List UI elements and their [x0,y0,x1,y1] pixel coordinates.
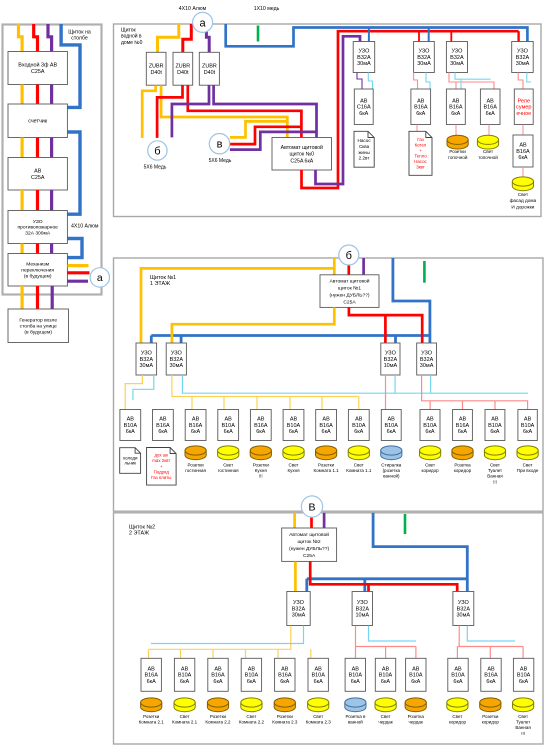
breaker "АВ В10А 6кА" A2-2 [174,658,194,691]
wire phase B from node в (red) [230,127,302,144]
svg-text:В16А: В16А [144,673,158,679]
breaker "АВ В16А 6кА" A1-2 [153,410,174,441]
label "Розетки гостинная" [185,463,206,474]
label "Розетка коридор" [454,463,472,474]
svg-text:Комната 2.3: Комната 2.3 [306,720,332,725]
svg-text:АВ: АВ [388,417,396,423]
breaker "АВ В16А 6кА" A1-11 [453,410,473,441]
svg-text:Комната 2.2: Комната 2.2 [205,720,231,725]
label "Свет Комната 1.1" [346,463,372,474]
svg-text:ZUBR: ZUBR [149,63,164,69]
breaker "АВ В10А 6кА" A1-12 [485,410,505,441]
wire RCD1 neutral drop (blue) [368,28,370,42]
svg-text:В10А: В10А [311,673,325,679]
load "Свет гостинная" [218,446,239,460]
load "Розетки Комната 2.1" [141,698,162,712]
svg-text:В10А: В10А [245,673,259,679]
svg-text:6кА: 6кА [411,679,420,685]
svg-text:6кА: 6кА [486,111,495,117]
svg-text:В10А: В10А [409,673,423,679]
svg-text:ванной: ванной [348,719,363,725]
wire neutral pole drop (blue) [61,24,80,107]
svg-text:УЗО: УЗО [419,49,431,55]
svg-text:(в будущем): (в будущем) [24,273,52,279]
label "Свет Комната 2.2" [239,714,265,725]
svg-text:Генератор возле: Генератор возле [19,318,57,324]
svg-text:УЗО: УЗО [421,351,433,357]
switch "Механизм переключения (в будущем)" [8,254,67,287]
wire U1-2 phase bus (pale yellow) [172,375,359,410]
svg-text:а: а [200,17,207,29]
svg-text:Тепло: Тепло [414,154,427,159]
svg-text:Щиток №2: Щиток №2 [129,525,155,531]
svg-text:ZUBR: ZUBR [202,63,217,69]
label "Свет гостинная" [218,463,239,474]
wire phase C AB to RCD (purple) [50,190,53,211]
node В (panel 2) [301,496,322,517]
load "Розетки Комната 2.3" [274,698,295,712]
label "Розетки Комната 2.3" [272,714,298,725]
svg-text:Свет: Свет [518,192,529,197]
svg-text:+: + [419,148,422,153]
breaker "АВ В10А 6кА" A2-12 [513,658,533,691]
generator "Генератор возле столба на улице (в будущем)" [8,309,69,343]
breaker "АВ С25А" [8,158,67,191]
wire phase C pole drop (purple) [48,24,52,52]
svg-text:В10А: В10А [451,673,465,679]
svg-text:столбе: столбе [71,35,88,41]
svg-text:4Х10 Алюм: 4Х10 Алюм [179,6,207,12]
svg-text:Комната 2.1: Комната 2.1 [139,720,165,725]
svg-text:Свет: Свет [490,463,500,468]
label "Свет коридор" [449,714,467,725]
wire phase A from node в (yellow) [230,121,287,137]
wire phase C branch to node б (purple) [172,85,209,137]
load note "Газ Котел + Тепло Насос" [409,131,432,175]
wire ground stub (green) [257,26,260,42]
svg-text:6кА: 6кА [490,429,499,435]
breaker "АВ В10А 6кА" A1-9 [381,410,401,441]
breaker "АВ В16А 6кА" A1-5 [250,410,271,441]
svg-text:счетчик: счетчик [28,119,48,125]
svg-text:АВ: АВ [487,667,495,673]
wire phase B AB to RCD (red) [36,190,39,211]
node а (left panel) [90,268,109,287]
svg-text:6кА: 6кА [351,679,360,685]
svg-text:коридор: коридор [454,468,472,473]
svg-text:В16А: В16А [449,105,463,111]
wire phase bus up to RCD row (red) [302,31,519,188]
RCD "УЗО В32А 30мА" U2-1 [287,592,310,626]
wire phase C stub to node а (purple) [67,280,88,283]
breaker "АВ В16А 6кА" A2-3 [208,658,228,691]
wire phase B branch to node б (red) [157,85,182,138]
load note "дух шк max 2квт + Подряд Газ плиты" [147,448,177,486]
wire phase A pole drop (yellow) [19,24,23,52]
label "Свет Туалет Ванная !!!" [487,463,503,485]
wire phase A out to RCD1 (yellow) [294,561,297,591]
load "Свет Комната 2.1" [174,698,195,712]
label "Свет коридор" [422,463,440,474]
svg-text:В32А: В32А [140,357,154,363]
svg-text:В10А: В10А [379,673,393,679]
label "Щиток №2 2 ЭТАЖ" [129,525,155,537]
svg-text:В16А: В16А [156,423,170,429]
svg-text:6кА: 6кА [289,429,298,435]
wire phase B bus to main breaker (red) [188,85,302,137]
svg-text:АВ: АВ [34,168,42,174]
breaker "АВ В16А 6кА" A2-5 [275,658,295,691]
svg-text:АВ: АВ [520,667,528,673]
panel enclosure "Щиток №2 2 ЭТАЖ" [114,513,544,744]
svg-text:6кА: 6кА [256,429,265,435]
wire neutral RCD to switch (blue) [67,239,82,258]
svg-text:В16А: В16А [484,673,498,679]
wire phase A to generator (yellow) [21,286,24,309]
svg-text:6кА: 6кА [453,679,462,685]
label "Розетка чердак" [408,714,425,725]
wire phase B stub to node а (red) [67,271,89,274]
svg-text:коридор: коридор [449,720,467,725]
main breaker "Автомат щитовой щиток №1" [320,275,379,308]
svg-text:дух шк: дух шк [154,453,168,458]
svg-text:2.2вт: 2.2вт [359,156,371,161]
svg-text:6кА: 6кА [280,679,289,685]
svg-text:щиток №1: щиток №1 [338,285,361,291]
breaker "АВ В16А 6кА" A0-4 [480,89,500,125]
svg-text:6кА: 6кА [518,155,527,161]
svg-text:6кА: 6кА [147,679,156,685]
svg-text:6кА: 6кА [425,429,434,435]
svg-text:6кА: 6кА [381,679,390,685]
svg-text:топочной: топочной [448,154,468,160]
svg-text:Стиралка: Стиралка [381,463,402,468]
wire AB facade to light (pink) [522,167,524,177]
svg-text:В16А: В16А [278,673,292,679]
svg-text:Кухня: Кухня [287,468,300,473]
svg-text:УЗО: УЗО [33,219,43,225]
load "Розетка в ванной" [345,698,366,712]
wire phase B drop to ZUBR2 (red) [183,24,192,52]
label "Свет Комната 2.1" [172,714,198,725]
wire relay to AB facade (pink) [522,125,524,135]
wire U1-3 to washer breaker (pink) [385,375,387,410]
svg-text:30мА: 30мА [170,363,184,369]
wire phase C bus to main breaker (purple) [214,85,317,137]
svg-text:ZUBR: ZUBR [175,63,190,69]
svg-text:АВ: АВ [454,667,462,673]
svg-text:В10А: В10А [221,423,235,429]
wire phase C to meter (purple) [50,85,53,105]
wire phase A drop to ZUBR1 (yellow) [158,24,179,52]
svg-text:30мА: 30мА [450,61,464,67]
wire U1-1 neutral out (cyan) [133,375,154,400]
svg-text:коридор: коридор [422,468,440,473]
label "Свет Кухня" [287,463,300,474]
wire phase C from node в (purple) [230,132,317,150]
svg-text:6кА: 6кА [387,429,396,435]
load "Розетки гостинная" [185,446,206,460]
breaker "АВ В10А 6кА" A2-4 [241,658,261,691]
label "Свет фасад дома И дорожки" [510,192,537,210]
panel enclosure "Щиток на столбе" [3,25,102,295]
svg-text:Розетки: Розетки [210,714,227,719]
wire phase B out to RCD row (red) [349,307,422,343]
wire phase C RCD out (purple) [50,244,53,254]
wire U2-1 phase bus (pale yellow) [149,626,311,659]
label "Свет При входе" [517,463,539,474]
wire phase A bus to main breaker (yellow) [161,85,287,137]
svg-text:АВ: АВ [491,417,499,423]
panel enclosure "Щиток водной в доме №0" [114,24,542,217]
svg-text:В16А: В16А [319,423,333,429]
svg-text:в: в [217,139,223,151]
svg-text:Свет: Свет [313,714,323,719]
svg-text:переключения: переключения [21,268,54,273]
RCD "УЗО В32А 30мА" U0-1 [353,42,375,73]
svg-text:10мА: 10мА [356,613,370,619]
svg-text:1Х10 медь: 1Х10 медь [254,6,280,12]
svg-text:Розетки: Розетки [482,714,499,719]
svg-text:В16А: В16А [189,423,203,429]
svg-text:Розетки: Розетки [253,463,270,468]
svg-text:Розетки: Розетки [143,714,160,719]
svg-text:АВ: АВ [214,667,222,673]
voltage protector "ZUBR D40t" #3 [199,52,219,85]
label "Розетки Кухня !!!" [253,463,270,479]
label "Стиралка (розетка ванной)" [381,463,402,479]
svg-text:чердак: чердак [409,720,423,725]
svg-text:6кА: 6кА [224,429,233,435]
svg-text:В: В [308,501,315,513]
wire RCD3 neutral out (cyan) [455,73,491,90]
svg-text:6кА: 6кА [191,429,200,435]
svg-text:Сква: Сква [359,144,370,149]
label "Розетки Комната 1.1" [314,463,340,474]
svg-text:6кА: 6кА [486,679,495,685]
svg-text:Туалет: Туалет [516,720,530,725]
svg-text:Свет: Свет [425,463,435,468]
svg-text:АВ: АВ [181,667,189,673]
wire RCD1 neutral out (cyan) [368,73,372,90]
svg-text:D40t: D40t [177,70,189,76]
svg-text:30мА: 30мА [292,613,306,619]
svg-text:льник: льник [124,461,136,466]
svg-text:6кА: 6кА [359,111,368,117]
svg-text:Розетка: Розетка [454,463,471,468]
load "Свет коридор" [420,446,441,460]
svg-text:Свет: Свет [523,463,533,468]
svg-text:В16А: В16А [516,149,530,155]
label "Свет Комната 2.3" [306,714,332,725]
svg-text:6кА: 6кА [523,429,532,435]
svg-text:УЗО: УЗО [451,49,463,55]
svg-text:В10А: В10А [521,423,535,429]
wire phase B pole drop (red) [34,24,38,52]
svg-text:В32А: В32А [516,55,530,61]
voltage protector "ZUBR D40t" #1 [146,52,166,85]
breaker "АВ В10А 6кА" A1-10 [420,410,440,441]
svg-text:АВ: АВ [225,417,233,423]
label "Розетки Комната 2.2" [205,714,231,725]
svg-text:Свет: Свет [381,714,391,719]
svg-text:В32А: В32А [357,55,371,61]
svg-text:Котел: Котел [415,143,427,148]
load "Розетки топочной" [447,135,468,149]
svg-text:В32А: В32А [170,357,184,363]
svg-text:Свет: Свет [288,463,298,468]
load "Розетка чердак" [405,698,426,712]
load "Свет коридор" [447,698,468,712]
svg-text:В10А: В10А [352,423,366,429]
svg-text:АВ: АВ [412,667,420,673]
load "Свет топочной" [477,135,498,149]
svg-text:30мА: 30мА [357,61,371,67]
wire ground stub (green) [423,261,426,283]
svg-text:Ванная: Ванная [515,725,531,730]
wire neutral meter to AB (blue) [67,132,80,214]
wire U1-1 phase out (pale yellow) [125,375,142,410]
breaker "АВ В16А 6кА" facade [513,135,533,167]
svg-text:В10А: В10А [488,423,502,429]
svg-text:УЗО: УЗО [358,49,370,55]
RCD "УЗО В32А 10мА" U1-3 [381,343,400,375]
svg-text:АВ: АВ [148,667,156,673]
svg-text:УЗО: УЗО [171,351,183,357]
wire phase C meter out (purple) [50,138,53,158]
svg-text:30мА: 30мА [417,61,431,67]
svg-text:Свет: Свет [452,714,462,719]
svg-text:6кА: 6кА [451,111,460,117]
wire phase B out to RCD row (red) [310,561,457,591]
label "5Х6 Медь" (в) [209,158,232,164]
wire RCD3 to AB3/AB4 (pink) [449,73,494,90]
load "Свет Комната 1.1" [348,446,369,460]
RCD "УЗО противопожарное 32А 300мА" [8,211,67,244]
svg-text:Розетка в: Розетка в [345,714,366,719]
node в (house intro) [209,134,229,154]
svg-text:Газ плиты: Газ плиты [151,475,171,480]
svg-text:УЗО: УЗО [357,600,369,606]
svg-text:водной в: водной в [121,33,142,40]
svg-text:АВ: АВ [487,98,495,104]
load "Свет При входе" [517,446,538,460]
svg-text:В10А: В10А [178,673,192,679]
wire phase A branch to node б (yellow) [142,85,155,138]
wire neutral feed (blue) [393,258,430,343]
svg-text:АВ: АВ [426,417,434,423]
RCD "УЗО В32А 30мА" U0-4 [512,42,534,73]
svg-text:АВ: АВ [452,98,460,104]
wire U2-2 phase bus (pink) [356,626,416,659]
label "Щиток водной в доме №0" [121,28,143,46]
wire U2-2 neutral bus (cyan) [369,626,417,641]
wire RCD1 to AB1 (purple thin) [357,73,362,90]
svg-text:жины: жины [358,150,369,155]
svg-text:Свет: Свет [246,714,256,719]
svg-text:АВ: АВ [355,417,363,423]
svg-text:АВ: АВ [290,417,298,423]
wire U2-3 phase bus (pink) [457,626,523,659]
svg-text:В32А: В32А [356,606,370,612]
svg-text:Насос: Насос [358,138,372,143]
svg-text:6кА: 6кА [458,429,467,435]
svg-text:В16А: В16А [211,673,225,679]
svg-text:Реле: Реле [518,98,531,104]
RCD "УЗО В32А 10мА" U2-2 [352,592,372,626]
svg-text:АВ: АВ [417,98,425,104]
svg-text:6кА: 6кА [180,679,189,685]
svg-text:гостинная: гостинная [218,468,239,473]
svg-text:УЗО: УЗО [293,600,305,606]
load note "Насос Скважины 2.2квт" [354,131,374,167]
breaker "АВ В10А 6кА" A1-13 [518,410,537,441]
wire RCD4 phase drop (red) [517,31,519,41]
node б (house intro) [148,141,167,160]
svg-text:В16А: В16А [254,423,268,429]
svg-text:30мА: 30мА [420,363,434,369]
svg-text:Комната 2.3: Комната 2.3 [272,720,298,725]
wire neutral bus (blue) [307,579,468,592]
svg-text:АВ: АВ [524,417,532,423]
svg-text:коридор: коридор [482,720,500,725]
RCD "УЗО В32А 30мА" U2-3 [453,592,474,626]
RCD "УЗО В32А 30мА" U1-2 [166,343,186,375]
svg-text:max 2квт: max 2квт [152,458,170,463]
svg-text:С25А: С25А [303,553,316,559]
wire RCD2 neutral drop (blue) [428,28,430,42]
svg-text:D40t: D40t [151,70,163,76]
breaker "АВ В16А 6кА" A0-2 [411,89,431,125]
svg-text:C25A 6кА: C25A 6кА [290,158,313,164]
svg-text:(нужен ДУБЛЬ??): (нужен ДУБЛЬ??) [329,292,369,298]
svg-text:Щиток: Щиток [121,28,136,34]
svg-text:В10А: В10А [124,423,138,429]
svg-text:30мА: 30мА [140,363,154,369]
svg-text:В32А: В32А [450,55,464,61]
wire phase C to generator (purple) [51,286,54,309]
load "Свет фасад дома И дорожки" [512,177,533,191]
svg-text:Кухня: Кухня [255,468,268,473]
svg-text:!!!: !!! [521,731,525,736]
svg-text:Насос: Насос [414,159,427,164]
node а (house intro) [193,12,213,32]
breaker "АВ В16А 6кА" A0-3 [446,89,465,125]
svg-text:АВ: АВ [281,667,289,673]
svg-text:АВ: АВ [519,143,527,149]
svg-text:6кА: 6кА [322,429,331,435]
svg-text:(розетка: (розетка [383,468,401,473]
svg-text:УЗО: УЗО [517,49,529,55]
svg-text:В32А: В32А [292,606,306,612]
breaker "АВ В10А 6кА" A1-4 [218,410,239,441]
wire neutral bus row 1 (cyan) [182,375,528,394]
svg-text:10мА: 10мА [384,363,398,369]
svg-text:С25А: С25А [31,69,45,75]
svg-text:С25А: С25А [31,175,45,181]
svg-text:В32А: В32А [417,55,431,61]
svg-text:30мА: 30мА [457,613,471,619]
breaker "АВ В16А 6кА" A1-7 [316,410,337,441]
svg-text:Свет: Свет [518,714,528,719]
wire RCD4 to relay (pink) [518,73,523,90]
load "Розетки коридор" [480,698,501,712]
svg-text:В10А: В10А [384,423,398,429]
svg-text:Автомат щитовой: Автомат щитовой [330,277,370,284]
svg-text:а: а [97,272,103,284]
panel enclosure "Щиток №1 1 ЭТАЖ" [114,258,544,511]
voltage protector "ZUBR D40t" #2 [173,52,193,85]
